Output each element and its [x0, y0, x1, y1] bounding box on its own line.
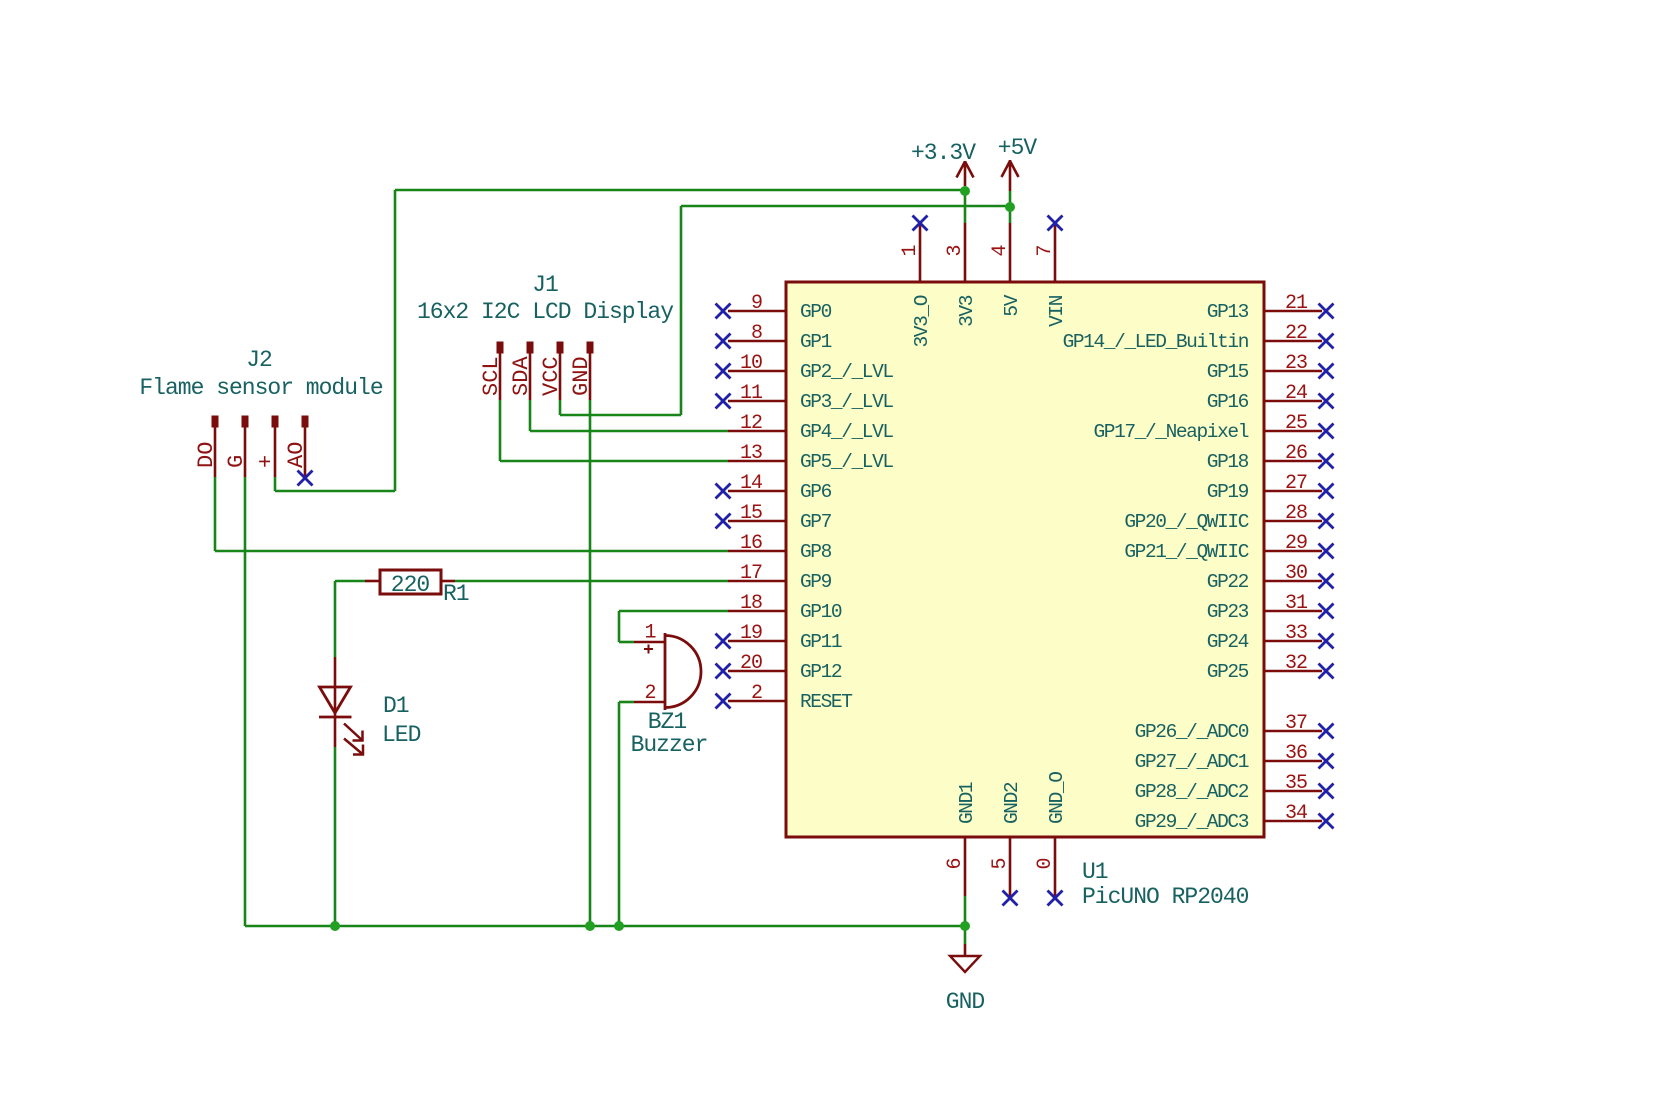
svg-text:G: G — [224, 455, 249, 468]
svg-text:19: 19 — [740, 622, 762, 645]
svg-text:220: 220 — [391, 572, 430, 598]
svg-text:GND_O: GND_O — [1046, 772, 1068, 824]
svg-text:D1: D1 — [383, 693, 409, 719]
svg-text:36: 36 — [1285, 742, 1307, 765]
svg-text:33: 33 — [1285, 622, 1307, 645]
svg-text:GP27_/_ADC1: GP27_/_ADC1 — [1135, 751, 1249, 773]
svg-text:26: 26 — [1285, 442, 1307, 465]
svg-text:5V: 5V — [1001, 294, 1023, 316]
svg-text:37: 37 — [1285, 712, 1307, 735]
svg-text:27: 27 — [1285, 472, 1307, 495]
svg-text:GP21_/_QWIIC: GP21_/_QWIIC — [1124, 541, 1248, 563]
svg-text:22: 22 — [1285, 322, 1307, 345]
svg-text:VCC: VCC — [539, 356, 564, 396]
svg-text:0: 0 — [1034, 858, 1057, 869]
svg-text:23: 23 — [1285, 352, 1307, 375]
svg-text:SDA: SDA — [509, 356, 534, 396]
svg-text:10: 10 — [740, 352, 762, 375]
svg-text:GP12: GP12 — [800, 661, 842, 683]
svg-text:SCL: SCL — [479, 356, 504, 396]
svg-text:14: 14 — [740, 472, 762, 495]
svg-text:+5V: +5V — [998, 135, 1038, 161]
svg-text:GP9: GP9 — [800, 571, 832, 593]
svg-text:GND1: GND1 — [956, 782, 978, 824]
svg-text:34: 34 — [1285, 802, 1307, 825]
svg-text:4: 4 — [989, 245, 1012, 256]
svg-text:30: 30 — [1285, 562, 1307, 585]
svg-text:35: 35 — [1285, 772, 1307, 795]
svg-text:2: 2 — [751, 682, 762, 705]
svg-text:VIN: VIN — [1046, 295, 1068, 327]
svg-text:31: 31 — [1285, 592, 1308, 615]
svg-text:Flame sensor module: Flame sensor module — [139, 375, 382, 401]
svg-text:J1: J1 — [532, 272, 558, 298]
svg-text:GP13: GP13 — [1207, 301, 1249, 323]
svg-text:GP8: GP8 — [800, 541, 832, 563]
svg-text:GP3_/_LVL: GP3_/_LVL — [800, 391, 893, 413]
svg-text:3: 3 — [944, 245, 967, 256]
svg-text:21: 21 — [1285, 292, 1308, 315]
svg-text:GP17_/_Neapixel: GP17_/_Neapixel — [1093, 421, 1248, 443]
svg-text:32: 32 — [1285, 652, 1307, 675]
svg-text:LED: LED — [382, 722, 421, 748]
svg-text:J2: J2 — [246, 347, 272, 373]
svg-text:15: 15 — [740, 502, 762, 525]
svg-text:1: 1 — [644, 622, 656, 645]
svg-text:GP22: GP22 — [1207, 571, 1249, 593]
svg-text:25: 25 — [1285, 412, 1307, 435]
svg-text:GP26_/_ADC0: GP26_/_ADC0 — [1135, 721, 1249, 743]
svg-text:GND: GND — [946, 989, 985, 1015]
svg-text:GP5_/_LVL: GP5_/_LVL — [800, 451, 893, 473]
svg-text:24: 24 — [1285, 382, 1307, 405]
svg-text:GP28_/_ADC2: GP28_/_ADC2 — [1135, 781, 1249, 803]
svg-text:6: 6 — [944, 858, 967, 869]
svg-text:GP15: GP15 — [1207, 361, 1249, 383]
svg-text:7: 7 — [1034, 245, 1057, 256]
svg-text:9: 9 — [751, 292, 762, 315]
svg-text:5: 5 — [989, 858, 1012, 869]
svg-text:3V3_O: 3V3_O — [911, 295, 933, 347]
svg-text:8: 8 — [751, 322, 762, 345]
svg-text:PicUNO RP2040: PicUNO RP2040 — [1082, 884, 1249, 910]
svg-text:GP7: GP7 — [800, 511, 832, 533]
svg-text:12: 12 — [740, 412, 762, 435]
svg-text:3V3: 3V3 — [956, 295, 978, 327]
svg-text:Buzzer: Buzzer — [631, 732, 708, 758]
svg-text:+3.3V: +3.3V — [911, 140, 976, 166]
svg-text:GP24: GP24 — [1207, 631, 1249, 653]
svg-text:GP10: GP10 — [800, 601, 842, 623]
svg-text:RESET: RESET — [800, 691, 852, 713]
svg-text:GND2: GND2 — [1001, 782, 1023, 824]
svg-text:13: 13 — [740, 442, 762, 465]
svg-text:18: 18 — [740, 592, 762, 615]
svg-text:11: 11 — [740, 382, 763, 405]
svg-text:GP16: GP16 — [1207, 391, 1249, 413]
svg-text:GP0: GP0 — [800, 301, 832, 323]
svg-text:2: 2 — [644, 682, 655, 705]
svg-text:GP2_/_LVL: GP2_/_LVL — [800, 361, 893, 383]
svg-text:GP11: GP11 — [800, 631, 842, 653]
svg-text:16: 16 — [740, 532, 762, 555]
svg-text:20: 20 — [740, 652, 762, 675]
svg-text:GP29_/_ADC3: GP29_/_ADC3 — [1135, 811, 1249, 833]
svg-text:U1: U1 — [1082, 859, 1108, 885]
svg-text:AO: AO — [284, 442, 309, 468]
svg-text:+: + — [254, 455, 279, 468]
svg-text:R1: R1 — [443, 581, 469, 607]
svg-text:GP4_/_LVL: GP4_/_LVL — [800, 421, 893, 443]
svg-text:GP1: GP1 — [800, 331, 832, 353]
svg-text:DO: DO — [194, 442, 219, 468]
svg-text:GP20_/_QWIIC: GP20_/_QWIIC — [1124, 511, 1248, 533]
svg-text:29: 29 — [1285, 532, 1307, 555]
svg-text:GND: GND — [569, 356, 594, 396]
svg-text:GP19: GP19 — [1207, 481, 1249, 503]
svg-text:17: 17 — [740, 562, 762, 585]
svg-text:GP23: GP23 — [1207, 601, 1249, 623]
svg-text:GP18: GP18 — [1207, 451, 1249, 473]
svg-text:16x2 I2C LCD Display: 16x2 I2C LCD Display — [417, 299, 674, 325]
svg-text:GP6: GP6 — [800, 481, 832, 503]
svg-text:GP25: GP25 — [1207, 661, 1249, 683]
svg-text:1: 1 — [899, 245, 922, 257]
svg-text:28: 28 — [1285, 502, 1307, 525]
svg-text:GP14_/_LED_Builtin: GP14_/_LED_Builtin — [1063, 331, 1248, 353]
